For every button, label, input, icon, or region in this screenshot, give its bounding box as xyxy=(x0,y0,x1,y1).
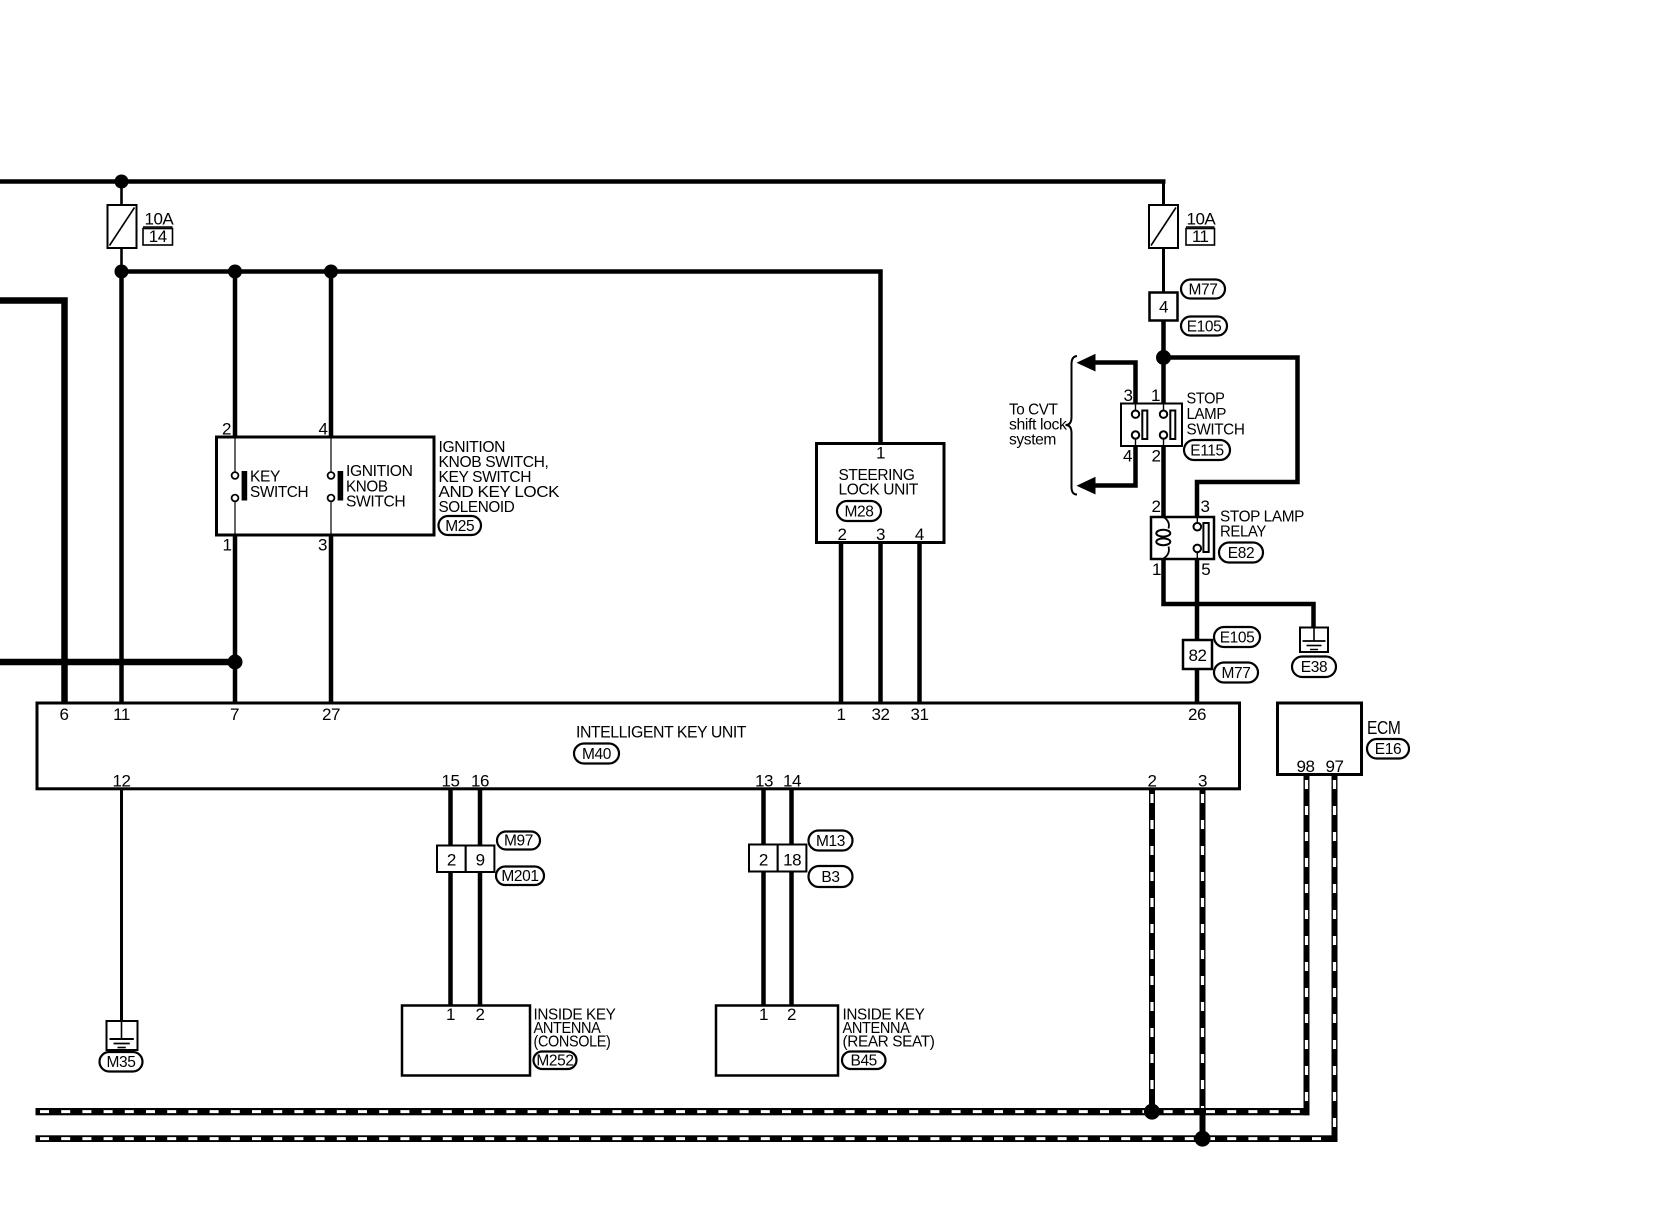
svg-text:11: 11 xyxy=(113,705,130,724)
switch: stop lamp switch contact (left, CVT side) xyxy=(1132,404,1148,447)
svg-text:B45: B45 xyxy=(851,1052,877,1069)
svg-text:3: 3 xyxy=(876,525,885,544)
svg-text:16: 16 xyxy=(471,772,489,791)
svg-text:3: 3 xyxy=(1201,497,1210,516)
wire: fuse 11 top lead xyxy=(1162,182,1165,208)
connector ref M77 (upper) xyxy=(1181,280,1225,299)
wire: key unit pin 15 to console antenna pin 1 xyxy=(448,788,453,1006)
brace: CVT group xyxy=(1066,356,1078,495)
svg-text:4: 4 xyxy=(1123,447,1132,466)
svg-text:M252: M252 xyxy=(536,1052,573,1069)
component M40: intelligent key unit box xyxy=(37,703,1240,789)
node: junction stop lamp switch / relay branch xyxy=(1156,350,1171,365)
ground E38 xyxy=(1300,628,1328,653)
svg-text:ECM: ECM xyxy=(1367,718,1401,738)
svg-text:1: 1 xyxy=(876,444,885,463)
wire: fuse 14 top lead xyxy=(120,182,123,208)
svg-text:M40: M40 xyxy=(582,746,612,763)
svg-text:1: 1 xyxy=(446,1005,455,1024)
relay coil (E82) xyxy=(1156,517,1170,559)
svg-text:SOLENOID: SOLENOID xyxy=(439,499,515,516)
svg-text:97: 97 xyxy=(1326,757,1344,776)
svg-text:M25: M25 xyxy=(445,518,474,535)
wire: relay pin 5 to key unit pin 26 xyxy=(1195,559,1200,703)
svg-text:11: 11 xyxy=(1192,227,1209,246)
connector ref E105 (upper) xyxy=(1181,317,1227,336)
shield bus: upper horizontal xyxy=(36,1108,1310,1115)
shield wire: ECM pin 97 drop xyxy=(1332,774,1338,1142)
svg-text:3: 3 xyxy=(1124,386,1133,405)
switch: stop lamp switch contact (right) xyxy=(1160,404,1176,447)
wire: ignition knob pin 4 drop xyxy=(329,272,334,439)
svg-text:2: 2 xyxy=(787,1005,796,1024)
svg-text:2: 2 xyxy=(447,851,456,870)
svg-text:SWITCH: SWITCH xyxy=(1187,421,1245,438)
svg-text:SWITCH: SWITCH xyxy=(250,484,308,501)
wire: key unit pin 13 to rear antenna pin 1 xyxy=(761,788,766,1006)
label: To CVT shift lock system xyxy=(1009,401,1068,448)
svg-text:1: 1 xyxy=(1151,386,1160,405)
svg-text:M97: M97 xyxy=(504,833,533,850)
connector ref B3 xyxy=(809,866,853,887)
fuse F14 10A xyxy=(108,205,137,248)
shield bus: lower horizontal xyxy=(36,1135,1338,1142)
connector ref M28 xyxy=(837,501,881,521)
connector ref M40 xyxy=(574,744,619,764)
label: INSIDE KEY ANTENNA (CONSOLE) xyxy=(534,1007,617,1051)
svg-text:2: 2 xyxy=(1152,447,1161,466)
shield wire: key unit pin 3 drop xyxy=(1200,788,1206,1142)
wire: steering pin 4 to key unit pin 31 xyxy=(917,543,922,703)
component B45: inside key antenna (rear seat) box xyxy=(716,1006,838,1076)
svg-text:26: 26 xyxy=(1188,705,1206,724)
svg-text:1: 1 xyxy=(223,536,232,555)
svg-text:SWITCH: SWITCH xyxy=(346,493,405,510)
wire: branch junction to stop lamp relay pin 3 xyxy=(1164,358,1298,520)
svg-text:6: 6 xyxy=(60,705,69,724)
svg-text:M28: M28 xyxy=(845,503,874,520)
svg-text:13: 13 xyxy=(755,772,773,791)
connector ref M97 xyxy=(497,832,540,850)
wire: steering pin 3 to key unit pin 32 xyxy=(878,543,883,703)
connector ref E105 (lower) xyxy=(1214,627,1260,647)
relay contact (E82) xyxy=(1194,517,1209,559)
connector ref E115 xyxy=(1184,440,1230,460)
connector ref M13 xyxy=(809,831,853,851)
node: junction off-page feed / key switch pin 1 wire xyxy=(228,655,243,670)
svg-text:2: 2 xyxy=(222,420,231,439)
wire: battery bus (top horizontal) xyxy=(0,179,1166,184)
wire: fuse 14 bottom lead xyxy=(120,247,123,273)
svg-text:4: 4 xyxy=(1159,298,1168,317)
svg-text:82: 82 xyxy=(1189,646,1207,665)
svg-text:E105: E105 xyxy=(1220,629,1255,646)
svg-text:E16: E16 xyxy=(1375,741,1401,758)
wire: steering pin 2 to key unit pin 1 xyxy=(839,543,844,703)
switch: key switch contact xyxy=(232,437,248,535)
node: junction pin 2 wire / upper shield bus xyxy=(1144,1104,1160,1120)
connector ref E82 xyxy=(1219,543,1263,563)
wire: key unit pin 12 to ground M35 xyxy=(120,788,123,1022)
wire: drop fuse 14 to key unit pin 11 xyxy=(119,272,124,704)
component M28: steering lock unit box xyxy=(817,444,945,543)
svg-text:14: 14 xyxy=(149,227,167,246)
node: junction pin 3 wire / lower shield bus xyxy=(1195,1131,1211,1147)
wire: switch pin 4 to CVT (lower arrow) xyxy=(1090,446,1136,486)
connector: 4 (M77/E105 pass-through) xyxy=(1150,293,1178,321)
svg-text:7: 7 xyxy=(230,705,239,724)
svg-text:1: 1 xyxy=(759,1005,768,1024)
wire: switch pin 2 to relay pin 2 xyxy=(1161,446,1166,519)
arrowhead: to CVT upper xyxy=(1077,354,1096,372)
svg-text:1: 1 xyxy=(837,705,846,724)
svg-text:E82: E82 xyxy=(1228,545,1254,562)
svg-text:10A: 10A xyxy=(1187,210,1217,229)
arrowhead: to CVT lower xyxy=(1077,477,1096,495)
svg-text:E115: E115 xyxy=(1190,442,1223,459)
wire: ignition knob pin 3 to key unit pin 27 xyxy=(329,535,334,703)
wire: key switch pin 2 drop xyxy=(233,272,238,439)
svg-text:18: 18 xyxy=(783,851,801,870)
svg-text:1: 1 xyxy=(1152,560,1161,579)
component E82: stop lamp relay box xyxy=(1151,517,1214,559)
svg-text:2: 2 xyxy=(1152,497,1161,516)
svg-text:9: 9 xyxy=(476,851,485,870)
svg-text:M77: M77 xyxy=(1222,665,1251,682)
svg-text:14: 14 xyxy=(783,772,801,791)
wire: key unit pin 14 to rear antenna pin 2 xyxy=(789,788,794,1006)
connector ref M201 xyxy=(496,867,544,886)
label: INSIDE KEY ANTENNA (REAR SEAT) xyxy=(843,1007,935,1051)
svg-text:98: 98 xyxy=(1297,757,1315,776)
wire: fuse 11 bottom lead xyxy=(1162,247,1165,294)
connector ref E38 xyxy=(1292,657,1336,678)
connector ref M25 xyxy=(439,516,482,535)
svg-text:(REAR SEAT): (REAR SEAT) xyxy=(843,1034,935,1051)
svg-text:2: 2 xyxy=(838,525,847,544)
connector ref B45 xyxy=(842,1052,886,1070)
wire: relay pin 1 to ground E38 xyxy=(1164,559,1314,628)
svg-text:M13: M13 xyxy=(816,833,845,850)
svg-text:15: 15 xyxy=(442,772,460,791)
label: description ignition knob switch, key switch and key lock solenoid xyxy=(439,439,560,516)
component E115: stop lamp switch box xyxy=(1121,404,1182,447)
node: junction ignition bus / key switch pin 2 xyxy=(228,265,242,279)
wire: connector 4 to stop lamp switch pin 1 xyxy=(1161,321,1166,406)
connector: 82 (E105/M77 pass-through) xyxy=(1183,640,1212,669)
svg-text:12: 12 xyxy=(113,772,131,791)
connector ref M252 xyxy=(534,1052,577,1070)
svg-text:5: 5 xyxy=(1201,560,1210,579)
connector: 18 (M13/B3 pass-through right) xyxy=(778,845,807,872)
svg-text:M201: M201 xyxy=(501,868,538,885)
connector: 9 (M97/M201 pass-through right) xyxy=(466,846,495,873)
svg-text:STOP: STOP xyxy=(1187,390,1225,407)
connector: 2 (M13/B3 pass-through left) xyxy=(749,845,778,872)
svg-text:10A: 10A xyxy=(145,210,175,229)
connector ref M35 xyxy=(100,1052,143,1072)
svg-text:3: 3 xyxy=(318,536,327,555)
svg-text:B3: B3 xyxy=(821,869,839,886)
svg-text:3: 3 xyxy=(1198,772,1207,791)
svg-text:E38: E38 xyxy=(1301,659,1327,676)
svg-text:(CONSOLE): (CONSOLE) xyxy=(534,1034,611,1051)
switch: ignition knob switch contact xyxy=(328,437,344,535)
svg-text:system: system xyxy=(1009,431,1056,448)
connector ref E16 xyxy=(1367,739,1409,759)
svg-text:27: 27 xyxy=(322,705,340,724)
node: junction ignition bus / ignition knob pin 4 xyxy=(324,265,338,279)
svg-text:INTELLIGENT KEY UNIT: INTELLIGENT KEY UNIT xyxy=(576,723,746,742)
svg-text:E105: E105 xyxy=(1187,318,1222,335)
fuse F11 10A xyxy=(1149,205,1178,248)
wire: off-page feed lower to pin 7 node xyxy=(0,659,235,666)
svg-text:M35: M35 xyxy=(107,1054,136,1071)
wire: key switch pin 1 to key unit pin 7 xyxy=(233,535,238,703)
shield wire: key unit pin 2 drop xyxy=(1149,788,1155,1115)
svg-text:LAMP: LAMP xyxy=(1187,406,1227,423)
label: fuse number 11 xyxy=(1186,227,1215,246)
svg-text:2: 2 xyxy=(476,1005,485,1024)
ground M35 xyxy=(107,1021,138,1050)
shield wire: ECM pin 98 drop xyxy=(1304,774,1310,1115)
connector ref M77 (lower) xyxy=(1214,663,1258,683)
svg-text:31: 31 xyxy=(911,705,929,724)
wire: switch pin 3 to CVT (upper arrow) xyxy=(1090,363,1136,404)
svg-text:32: 32 xyxy=(872,705,890,724)
svg-text:LOCK UNIT: LOCK UNIT xyxy=(839,482,919,499)
component E16: ECM box xyxy=(1278,703,1362,775)
wire: ignition bus to steering lock unit pin 1 xyxy=(122,272,881,446)
node: junction battery bus / fuse 14 xyxy=(115,175,129,189)
svg-text:M77: M77 xyxy=(1189,281,1218,298)
svg-text:2: 2 xyxy=(759,851,768,870)
svg-text:4: 4 xyxy=(319,420,328,439)
svg-text:4: 4 xyxy=(915,525,924,544)
label: fuse number 14 xyxy=(143,227,173,246)
connector: 2 (M97/M201 pass-through left) xyxy=(437,846,466,873)
wire: key unit pin 16 to console antenna pin 2 xyxy=(478,788,483,1006)
component M252: inside key antenna (console) box xyxy=(402,1006,530,1076)
wire: off-page feed upper to key unit pin 6 xyxy=(0,301,65,704)
svg-text:2: 2 xyxy=(1148,772,1157,791)
svg-text:RELAY: RELAY xyxy=(1220,524,1267,541)
node: junction ignition bus / fuse drop xyxy=(115,265,129,279)
component M25: key switch / ignition knob switch box xyxy=(217,437,435,535)
